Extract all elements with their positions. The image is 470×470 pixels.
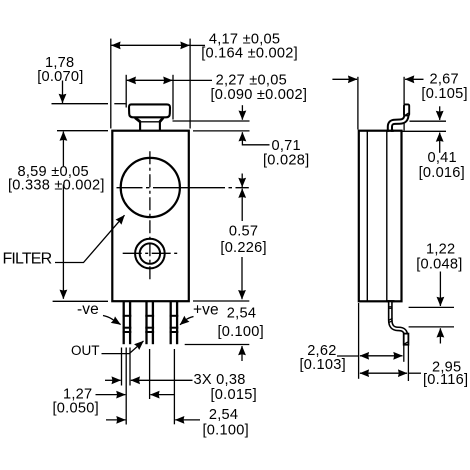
dim 0,41 up arrow xyxy=(439,133,441,153)
package body side xyxy=(359,131,402,302)
dim 8,59 vertical line with arrows xyxy=(62,132,64,166)
dim 2,54 bottom right arrow xyxy=(175,419,200,421)
dim 0,71 up arrow and leader xyxy=(242,132,269,145)
svg-text:2,54: 2,54 xyxy=(209,407,238,423)
dim 1,22 down arrow xyxy=(439,272,441,307)
front dimensions xyxy=(8,31,309,438)
svg-text:0.57: 0.57 xyxy=(229,224,258,240)
svg-text:3X 0,38: 3X 0,38 xyxy=(194,372,246,388)
dim 2,95 leader xyxy=(408,372,421,374)
top tab lead S-bend xyxy=(390,107,407,132)
vertical centerline xyxy=(149,151,151,281)
svg-text:+ve: +ve xyxy=(193,302,219,319)
horizontal centerline small circle xyxy=(123,252,178,254)
dim 1,27 left arrow xyxy=(96,394,126,396)
dim 2,27 extension right xyxy=(172,75,174,120)
dim 1,22 ref bottom xyxy=(409,326,454,328)
sensor aperture outer circle xyxy=(135,239,165,269)
FILTER leader xyxy=(55,215,125,262)
svg-text:[0.116]: [0.116] xyxy=(423,372,468,388)
top tab tip xyxy=(404,104,409,115)
svg-text:0,41: 0,41 xyxy=(428,150,457,166)
svg-text:[0.090 ±0.002]: [0.090 ±0.002] xyxy=(211,87,308,103)
crimp diagonal tick xyxy=(404,342,408,345)
dim 3X 0,38 left arrow xyxy=(105,379,121,381)
+ve leader xyxy=(180,317,194,325)
cap shoulder left xyxy=(135,118,140,122)
body inner line right xyxy=(386,132,388,301)
bottom lead bend ticks xyxy=(388,318,392,320)
dim 2,62 leader xyxy=(337,355,359,357)
dim 0,41 down arrow xyxy=(439,106,441,120)
OUT leader xyxy=(102,341,144,354)
bottom lead crimp box xyxy=(404,334,409,345)
leg3 center ext xyxy=(173,349,175,424)
cap shoulder right xyxy=(160,118,164,122)
dim 2,54 bottom left arrow xyxy=(106,419,126,421)
svg-text:OUT: OUT xyxy=(71,343,100,358)
leg 3 xyxy=(170,302,179,344)
lens cap top xyxy=(129,104,170,117)
dim 0,71 ref line top xyxy=(173,120,250,122)
svg-text:[0.164 ±0.002]: [0.164 ±0.002] xyxy=(201,46,298,62)
dim 8,59 ref line top xyxy=(57,130,108,132)
dim 8,59 ref line bottom xyxy=(53,300,108,302)
package body front xyxy=(112,131,189,302)
leg2 center ext xyxy=(149,349,151,399)
dim 0.57 down arrow xyxy=(241,257,243,299)
-ve leader xyxy=(103,316,121,325)
svg-text:[0.050]: [0.050] xyxy=(53,401,99,417)
body bottom edge redraw at lead junction xyxy=(387,300,395,302)
dim 1,78 down arrow xyxy=(62,81,64,104)
tail right line xyxy=(407,345,409,381)
svg-text:[0.016]: [0.016] xyxy=(419,165,465,181)
leg 1 xyxy=(123,302,132,344)
svg-text:1,22: 1,22 xyxy=(426,242,455,258)
dim 4,17 extension right xyxy=(189,39,191,129)
dim 1,27 right arrow xyxy=(150,394,174,396)
bottom lead step ticks xyxy=(388,306,392,308)
dim 2,27 extension left xyxy=(125,75,127,108)
dim 2,62 ext left xyxy=(358,303,360,379)
leg1 left edge ext xyxy=(121,348,123,386)
dim 1,22 ref top xyxy=(409,306,454,308)
svg-text:[0.226]: [0.226] xyxy=(220,240,266,256)
dim 0,71 ref line bottom xyxy=(193,130,250,132)
dim 2,54 right up arrow xyxy=(241,346,243,361)
side view group xyxy=(359,104,409,381)
horizontal centerline big circle xyxy=(117,187,249,189)
neck right side xyxy=(159,122,161,131)
svg-text:0,71: 0,71 xyxy=(272,138,301,154)
svg-text:[0.048]: [0.048] xyxy=(416,256,462,272)
dim 4,17 line with arrows xyxy=(111,44,190,46)
svg-text:[0.100]: [0.100] xyxy=(203,423,249,439)
svg-text:[0.103]: [0.103] xyxy=(300,357,346,373)
sensor aperture inner circle xyxy=(140,243,160,263)
dim 2,67 ext left xyxy=(357,77,359,130)
svg-text:[0.028]: [0.028] xyxy=(263,153,309,169)
side dimensions xyxy=(300,72,469,388)
body bottom ref right xyxy=(193,300,249,302)
dim 2,27 line with arrows xyxy=(127,79,173,81)
dim 1,78 ref line top xyxy=(52,103,109,105)
top tab bend tick xyxy=(404,113,408,116)
bottom lead S-bend xyxy=(390,301,406,341)
body top edge redraw at tab junction xyxy=(387,130,395,132)
svg-text:[0.100]: [0.100] xyxy=(218,324,264,340)
dim 1,22 up arrow xyxy=(439,328,441,343)
dim 2,62 arrows xyxy=(360,355,381,357)
dim 2,67 right arrow xyxy=(405,78,423,80)
body inner line left xyxy=(366,132,368,301)
leg1 right edge ext xyxy=(129,348,131,386)
dim 0,71 down arrow xyxy=(241,105,243,120)
dim 0.57 up arrow xyxy=(241,189,243,221)
dim 2,67 ext right lower xyxy=(403,123,405,131)
svg-text:[0.015]: [0.015] xyxy=(211,387,257,403)
dim 4,17 extension left xyxy=(110,39,112,129)
neck left side xyxy=(139,122,141,131)
dim 3X 0,38 right arrow xyxy=(131,379,193,381)
svg-text:[0.338 ±0.002]: [0.338 ±0.002] xyxy=(8,177,105,193)
front view group xyxy=(3,104,249,358)
legs bottom ref right xyxy=(185,344,250,346)
leg1 center ext xyxy=(125,348,127,425)
dim 0,41 ref top xyxy=(410,120,447,122)
tail left line xyxy=(403,345,405,362)
svg-text:FILTER: FILTER xyxy=(3,251,52,268)
leg 2 xyxy=(145,302,154,344)
centerline down arrow xyxy=(241,174,243,188)
dim 0,41 ref bottom xyxy=(403,130,447,132)
svg-text:[0.070]: [0.070] xyxy=(37,69,83,85)
neck top line xyxy=(139,121,161,123)
svg-text:2,54: 2,54 xyxy=(227,305,256,321)
svg-text:[0.105]: [0.105] xyxy=(421,86,467,102)
dim 2,67 left arrow xyxy=(332,78,357,80)
filter window circle xyxy=(121,158,180,217)
dim 2,67 ext right upper xyxy=(403,77,405,104)
dim 2,95 arrows xyxy=(360,372,383,374)
svg-text:-ve: -ve xyxy=(77,301,99,318)
